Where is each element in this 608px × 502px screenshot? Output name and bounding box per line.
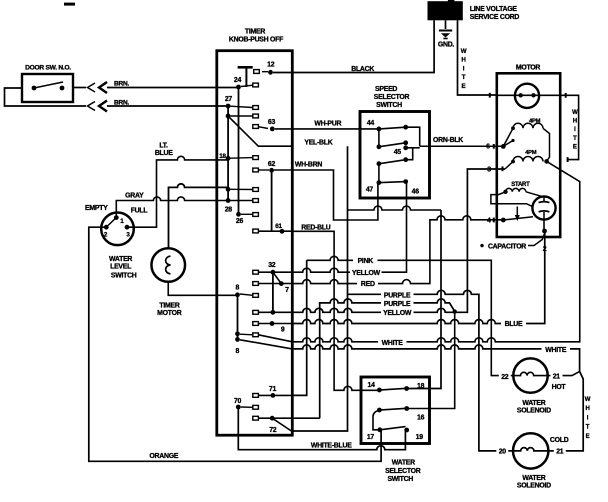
- svg-text:W: W: [461, 48, 467, 55]
- svg-text:TIMER: TIMER: [159, 302, 179, 309]
- wire WHITE lower (timer 8 to solenoids): [292, 345, 579, 372]
- svg-text:2: 2: [543, 246, 547, 253]
- svg-text:47: 47: [366, 187, 374, 194]
- wire LT. BLUE (water level 3 to timer 18): [127, 142, 228, 227]
- speed selector switch box: [360, 86, 430, 198]
- svg-text:4: 4: [487, 218, 491, 225]
- svg-text:START: START: [511, 182, 530, 188]
- wire WHITE upper (timer 8 to motor): [292, 161, 579, 347]
- wire 70 to water selector 19: [238, 407, 405, 450]
- line voltage service cord block: [428, 0, 520, 21]
- svg-text:ORANGE: ORANGE: [149, 453, 178, 460]
- svg-text:8: 8: [236, 348, 240, 355]
- timer terminal 32: [253, 262, 292, 275]
- timer contact bar (T symbol): [238, 66, 253, 69]
- svg-text:T: T: [573, 136, 577, 142]
- svg-text:HOT: HOT: [552, 384, 567, 391]
- svg-text:WH-BRN: WH-BRN: [295, 161, 322, 168]
- wire WHITE service cord to motor: [458, 20, 497, 97]
- svg-text:12: 12: [267, 61, 275, 68]
- svg-text:SPEED: SPEED: [375, 86, 397, 93]
- speed selector terminal 44: [367, 120, 381, 131]
- svg-text:20: 20: [499, 449, 507, 456]
- wire YELLOW (timer 32 to speed 46): [292, 182, 406, 277]
- water selector switch box: [361, 377, 430, 483]
- timer terminal 72: [253, 416, 320, 434]
- svg-text:COLD: COLD: [550, 437, 569, 444]
- svg-text:H: H: [573, 119, 577, 125]
- svg-text:6: 6: [486, 144, 490, 151]
- svg-text:9: 9: [281, 327, 285, 334]
- svg-text:72: 72: [269, 427, 277, 434]
- svg-text:ORN-BLK: ORN-BLK: [433, 137, 463, 144]
- timer terminal 70: [234, 398, 258, 410]
- svg-text:WATER: WATER: [109, 256, 132, 263]
- hot water solenoid: [499, 358, 567, 414]
- speed selector contacts: [379, 125, 420, 183]
- svg-text:WHITE: WHITE: [545, 347, 567, 354]
- motor winding 4PM upper: [511, 119, 549, 162]
- wire BLUE (timer 9 to capacitor): [292, 231, 544, 328]
- svg-text:28: 28: [225, 207, 233, 214]
- svg-text:18: 18: [417, 383, 425, 390]
- wire PINK (timer 71 to hot solenoid 22): [307, 256, 514, 376]
- svg-text:E: E: [586, 434, 590, 440]
- svg-text:WH-PUR: WH-PUR: [314, 120, 341, 127]
- svg-text:RED: RED: [361, 281, 375, 288]
- svg-text:E: E: [573, 144, 577, 150]
- svg-text:YEL-BLK: YEL-BLK: [304, 140, 332, 147]
- svg-text:W: W: [572, 110, 578, 116]
- svg-text:SELECTOR: SELECTOR: [374, 94, 410, 101]
- wire RED-BLU (timer 61 to water selector 14): [292, 225, 379, 391]
- timer vertical 62 to 61: [271, 170, 273, 231]
- speed selector terminal 46: [403, 179, 419, 195]
- svg-text:MOTOR: MOTOR: [157, 310, 182, 317]
- timer terminal 12: [254, 61, 275, 74]
- water selector terminal 18: [404, 383, 424, 391]
- svg-text:SOLENOID: SOLENOID: [517, 482, 551, 489]
- wire white fan lower diagonal: [240, 340, 292, 349]
- water level switch: [85, 205, 147, 279]
- svg-text:45: 45: [394, 149, 402, 156]
- wire GRAY (water level 1 to timer): [116, 193, 228, 218]
- motor terminal 4: [487, 217, 533, 225]
- wire timer motor top to timer: [169, 184, 229, 248]
- svg-text:SWITCH: SWITCH: [376, 102, 402, 109]
- wire timer motor bottom to timer 8: [168, 282, 237, 296]
- wire ORANGE (water level 2 to water selector 17): [89, 227, 381, 461]
- timer white fan node: [235, 331, 258, 354]
- wire 71 riser: [292, 260, 306, 395]
- timer terminal 8: [235, 285, 258, 298]
- svg-text:YELLOW: YELLOW: [352, 270, 381, 277]
- svg-text:26: 26: [236, 218, 244, 225]
- wire YELLOW lower (timer to motor 3): [292, 169, 505, 317]
- svg-text:18: 18: [219, 153, 226, 160]
- water selector terminal 17: [367, 427, 382, 441]
- svg-text:44: 44: [367, 120, 375, 127]
- svg-text:CAPACITOR: CAPACITOR: [488, 243, 526, 250]
- svg-text:4PM: 4PM: [525, 150, 537, 156]
- water selector terminal 14: [368, 382, 382, 393]
- svg-text:T: T: [462, 74, 466, 81]
- timer terminal 9: [253, 321, 292, 333]
- wire water selector 18 to bus: [407, 210, 441, 389]
- svg-text:GND.: GND.: [438, 42, 455, 49]
- svg-text:H: H: [585, 406, 589, 412]
- svg-text:62: 62: [268, 161, 276, 168]
- svg-text:SWITCH: SWITCH: [387, 476, 413, 483]
- wire BRN upper (door switch to timer 24): [73, 80, 239, 93]
- svg-text:WHITE: WHITE: [382, 340, 404, 347]
- timer terminal 62: [253, 161, 276, 173]
- svg-text:BRN.: BRN.: [114, 80, 130, 87]
- wire BRN lower (door switch to timer 27): [5, 88, 229, 112]
- svg-text:GRAY: GRAY: [125, 193, 144, 200]
- wire white fan upper diagonal: [258, 335, 292, 342]
- svg-text:SERVICE CORD: SERVICE CORD: [470, 14, 520, 21]
- svg-text:32: 32: [268, 262, 276, 269]
- svg-text:PURPLE: PURPLE: [384, 292, 411, 299]
- svg-text:SELECTOR: SELECTOR: [385, 468, 421, 475]
- svg-text:WHITE-BLUE: WHITE-BLUE: [311, 442, 352, 449]
- svg-text:BLUE: BLUE: [505, 321, 523, 328]
- cold water solenoid: [496, 433, 568, 489]
- svg-text:SWITCH: SWITCH: [111, 272, 137, 279]
- svg-text:W: W: [585, 397, 591, 403]
- svg-text:FULL: FULL: [131, 207, 148, 214]
- motor start switch arrow: [515, 207, 520, 222]
- wire PURPLE lower (timer 72 to junction): [319, 299, 455, 312]
- timer node gray row lower: [226, 198, 259, 203]
- svg-text:WATER: WATER: [392, 459, 415, 466]
- svg-text:LINE VOLTAGE: LINE VOLTAGE: [470, 6, 518, 13]
- vertical bus x347: [291, 146, 347, 431]
- timer terminal 24: [234, 77, 258, 89]
- svg-text:EMPTY: EMPTY: [85, 205, 108, 212]
- svg-text:22: 22: [501, 374, 509, 381]
- motor junction node: [544, 159, 549, 164]
- capacitor callout: [480, 234, 544, 250]
- timer node below 27: [226, 114, 259, 119]
- wire BLACK (timer 12 to service cord): [273, 20, 434, 73]
- water selector terminal 19: [404, 428, 423, 442]
- svg-text:LEVEL: LEVEL: [110, 264, 131, 271]
- speed selector terminal 47: [366, 161, 381, 193]
- motor terminal 3: [487, 162, 513, 174]
- junction purple/yellow2: [453, 309, 457, 313]
- svg-text:24: 24: [234, 77, 242, 84]
- svg-text:KNOB-PUSH OFF: KNOB-PUSH OFF: [229, 36, 283, 43]
- wire PURPLE upper (bus to cold solenoid 20): [348, 290, 514, 451]
- svg-text:14: 14: [368, 382, 376, 389]
- wire 72 riser: [319, 303, 321, 418]
- svg-text:WATER: WATER: [522, 475, 545, 482]
- ground GND.: [438, 20, 455, 48]
- wire WH-PUR (timer 63 to speed 44): [275, 120, 379, 129]
- wire speed selector feed y210: [348, 206, 442, 210]
- svg-text:8: 8: [236, 285, 240, 292]
- svg-text:WATER: WATER: [522, 400, 545, 407]
- timer column B vertical (24..28): [238, 87, 240, 214]
- wire white to hot 21: [548, 371, 580, 375]
- white vertical label right: [585, 397, 591, 440]
- speed selector terminal 45: [377, 140, 409, 155]
- timer column A vertical (27..gray): [227, 106, 229, 201]
- motor start winding: [491, 182, 541, 207]
- door switch DOOR SW. N.O.: [22, 65, 73, 103]
- timer motor: [151, 248, 185, 317]
- timer terminal node 312: [253, 310, 292, 315]
- motor protector circle: [497, 84, 560, 108]
- svg-text:SOLENOID: SOLENOID: [517, 408, 551, 415]
- timer terminal 61 (RED-BLU row): [253, 223, 292, 234]
- svg-text:46: 46: [412, 189, 420, 196]
- svg-text:70: 70: [234, 398, 242, 405]
- svg-text:T: T: [586, 425, 590, 431]
- motor right white loop: [560, 93, 578, 162]
- svg-text:DOOR SW. N.O.: DOOR SW. N.O.: [25, 65, 71, 72]
- svg-text:27: 27: [225, 96, 233, 103]
- motor box: [497, 64, 560, 237]
- timer terminal 28: [225, 207, 259, 225]
- wire water selector 16 riser: [407, 312, 455, 409]
- svg-text:71: 71: [269, 386, 277, 393]
- svg-text:16: 16: [417, 414, 425, 421]
- wire WH-BRN (timer 62 to speed 47): [274, 161, 378, 220]
- svg-text:3: 3: [487, 166, 491, 173]
- svg-text:61: 61: [275, 223, 282, 230]
- wire white to cold 21: [548, 371, 583, 451]
- timer vertical 8 down: [237, 295, 239, 340]
- timer terminal 71: [253, 386, 292, 398]
- timer vertical 32 down: [272, 272, 274, 312]
- svg-text:BRN.: BRN.: [114, 99, 130, 106]
- svg-text:63: 63: [268, 119, 276, 126]
- svg-text:MOTOR: MOTOR: [516, 64, 541, 71]
- svg-text:TIMER: TIMER: [245, 29, 265, 36]
- timer terminal 7: [253, 272, 292, 294]
- water selector terminal 16: [404, 406, 424, 421]
- svg-text:7: 7: [285, 287, 289, 294]
- svg-text:21: 21: [553, 374, 561, 381]
- motor winding 4PM lower: [511, 150, 543, 163]
- svg-text:21: 21: [556, 449, 564, 456]
- svg-text:YELLOW: YELLOW: [383, 310, 412, 317]
- svg-text:17: 17: [367, 434, 375, 441]
- wire ORN-BLK (speed selector to motor 6): [420, 137, 504, 146]
- svg-text:BLUE: BLUE: [155, 150, 173, 157]
- motor terminal 6: [486, 128, 514, 150]
- scan dash artifact: [64, 3, 75, 6]
- timer terminal 27: [225, 96, 259, 109]
- wire YEL-BLK (timer to bus): [291, 140, 347, 431]
- timer terminal 63: [253, 119, 276, 131]
- svg-text:RED-BLU: RED-BLU: [301, 225, 331, 232]
- wire RED (timer 7 to motor 4): [292, 216, 503, 288]
- water selector contacts: [373, 388, 407, 430]
- svg-text:19: 19: [416, 434, 424, 441]
- svg-text:PURPLE: PURPLE: [384, 301, 411, 308]
- capacitor circle: [532, 196, 555, 253]
- svg-text:PINK: PINK: [358, 258, 374, 265]
- svg-text:BLACK: BLACK: [351, 66, 374, 73]
- timer diagonal to YEL-BLK exit: [229, 117, 292, 146]
- timer terminal 18: [219, 153, 258, 161]
- svg-text:E: E: [462, 83, 466, 90]
- timer box TIMER KNOB-PUSH OFF: [217, 29, 292, 436]
- timer node gray row upper: [226, 187, 259, 192]
- svg-text:LT.: LT.: [159, 142, 168, 149]
